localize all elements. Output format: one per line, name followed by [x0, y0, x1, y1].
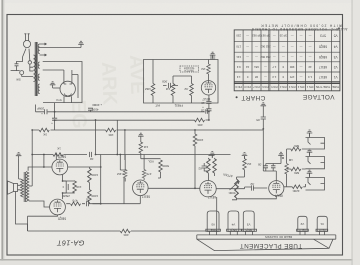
jack 2 ground — [307, 149, 313, 155]
B+ bus 2 — [55, 119, 209, 121]
output transformer secondary winding — [21, 179, 24, 197]
jack 1 ground — [307, 130, 313, 136]
svg-text:6X4: 6X4 — [210, 228, 215, 232]
ground G2 inside rectifier loop — [50, 82, 56, 88]
svg-text:PIN 8: PIN 8 — [244, 85, 251, 89]
rail cap C05 — [261, 117, 266, 119]
svg-text:V2: V2 — [334, 65, 338, 69]
treble network resistor B — [213, 159, 217, 173]
input grid resistor 1M vertical — [285, 164, 289, 174]
svg-text:.02: .02 — [198, 167, 203, 171]
grid resistor Rg1 — [88, 168, 92, 182]
AC line wire — [11, 70, 20, 72]
svg-text:V1: V1 — [320, 222, 324, 226]
svg-text:AVE: AVE — [125, 54, 148, 94]
svg-text:6EU7: 6EU7 — [275, 194, 283, 198]
svg-text:PIN 3: PIN 3 — [288, 85, 295, 89]
svg-text:—: — — [282, 55, 285, 59]
heater loop wire outer — [43, 62, 82, 103]
svg-text:PIN 2: PIN 2 — [297, 85, 304, 89]
svg-text:10: 10 — [201, 101, 205, 105]
secondary tap arrow A — [40, 43, 47, 45]
svg-text:1M: 1M — [247, 162, 252, 166]
svg-text:2.2M: 2.2M — [117, 172, 124, 176]
interstage wires — [216, 187, 267, 189]
svg-text:6EU7: 6EU7 — [319, 75, 327, 79]
svg-text:TUBE TYPE: TUBE TYPE — [316, 85, 331, 89]
svg-text:500K: 500K — [228, 191, 235, 195]
volume pot top lead — [232, 177, 237, 200]
cathode resistor Rk — [73, 181, 77, 193]
tremolo resistor R1 — [151, 84, 155, 96]
OT secondary ground G9 — [16, 153, 22, 159]
AC cord wires — [23, 49, 30, 61]
svg-text:1M: 1M — [201, 67, 206, 71]
treble network resistor A — [207, 159, 211, 173]
svg-text:6EU7: 6EU7 — [299, 228, 306, 232]
svg-text:—: — — [246, 55, 249, 59]
svg-text:VOLTAGE: VOLTAGE — [302, 93, 334, 100]
jack 1 ground stub — [309, 133, 311, 138]
treble network wires — [204, 155, 214, 180]
svg-text:6BQ5: 6BQ5 — [245, 228, 252, 232]
jack wires to grid — [287, 149, 306, 169]
output tube V4 inner — [56, 160, 64, 172]
grid bus with inline resistor — [284, 149, 287, 187]
B+ bus 1 — [36, 105, 209, 112]
voltage chart table grid — [234, 30, 340, 91]
tube placement outline V3 — [242, 211, 257, 235]
V1 top ground G8 — [278, 152, 284, 158]
bus3 resistor Ra — [39, 128, 49, 132]
tremolo cap Ca — [169, 83, 171, 88]
tremolo tube inner — [205, 81, 213, 93]
svg-text:V2: V2 — [300, 222, 304, 226]
chassis bar — [197, 235, 336, 251]
svg-text:.05: .05 — [256, 118, 261, 122]
svg-text:300: 300 — [289, 65, 294, 69]
input tube V1 inner — [272, 181, 280, 193]
grid bus vertical — [100, 155, 102, 204]
svg-text:V4: V4 — [334, 45, 338, 49]
svg-text:+ 20MF: + 20MF — [92, 103, 102, 107]
OT primary top lead to V4 plate — [28, 155, 52, 171]
svg-text:—: — — [299, 65, 302, 69]
Rc leads — [140, 139, 142, 158]
svg-text:.02: .02 — [201, 109, 206, 113]
svg-text:5K: 5K — [43, 133, 47, 137]
svg-text:47K: 47K — [146, 172, 151, 176]
svg-text:1M: 1M — [165, 87, 170, 91]
svg-text:1M: 1M — [288, 158, 293, 162]
filter cap C1 inline plates — [45, 109, 47, 114]
fuse circle — [20, 71, 34, 77]
filter cap label +20MF 450V — [91, 103, 102, 112]
svg-text:230: 230 — [236, 34, 241, 38]
line cap to chassis — [15, 57, 23, 71]
rail from bus3 down to coupling — [124, 130, 126, 160]
tremolo box outline — [144, 60, 219, 104]
svg-text:CHART: CHART — [241, 94, 265, 101]
svg-text:V3: V3 — [334, 55, 338, 59]
grid resistor 68K jack1 — [291, 147, 301, 151]
cathode bypass cap Cf — [66, 181, 68, 193]
input tube V1 circle — [269, 181, 284, 196]
svg-text:.02: .02 — [250, 182, 255, 186]
tremolo R1 leads — [152, 60, 154, 104]
svg-text:—: — — [291, 45, 294, 49]
jack 2 body — [306, 157, 325, 169]
tube placement outline V1 — [316, 216, 328, 235]
voltage chart cell values row V1 — [236, 75, 337, 79]
svg-text:V5: V5 — [334, 34, 338, 38]
svg-text:262 062: 262 062 — [260, 55, 271, 59]
switch SW circle — [28, 61, 33, 71]
voltage chart cell values row V5 — [236, 34, 338, 38]
OT center tap to B+ — [29, 185, 32, 187]
voltage chart header row (pin numbers) — [235, 85, 339, 89]
svg-text:V3: V3 — [247, 223, 251, 227]
jack3 grid stopper resistor — [292, 185, 302, 189]
rectifier tube V5 circle — [60, 81, 75, 96]
phase splitter plate resistor — [142, 170, 146, 178]
svg-text:20K: 20K — [197, 123, 202, 127]
V2a plate resistor — [193, 134, 197, 146]
svg-text:TUBE: TUBE — [332, 85, 339, 89]
svg-text:1M: 1M — [143, 145, 148, 149]
filter cap C2 plates — [52, 118, 57, 120]
svg-text:44: 44 — [246, 65, 250, 69]
svg-text:—: — — [299, 45, 302, 49]
voltage chart cell values row V3 — [236, 55, 338, 59]
svg-text:—: — — [264, 65, 267, 69]
pot resistor Rv — [159, 160, 163, 172]
screen feed resistor 1K zigzag — [53, 153, 63, 157]
coupling resistor Rc vertical — [139, 142, 143, 153]
svg-text:PIN 1: PIN 1 — [306, 85, 313, 89]
svg-text:EG: EG — [67, 99, 90, 129]
svg-text:6EU7: 6EU7 — [319, 65, 327, 69]
output transformer primary winding — [26, 172, 29, 202]
svg-text:130: 130 — [76, 185, 81, 189]
svg-text:1.7: 1.7 — [272, 65, 276, 69]
svg-text:V5: V5 — [211, 223, 215, 227]
svg-text:3P 062: 3P 062 — [252, 34, 261, 38]
tremolo R2 leads — [172, 76, 174, 103]
svg-text:6BQ5: 6BQ5 — [58, 155, 66, 159]
output tube V2b circle — [50, 199, 66, 215]
treble network cap — [202, 166, 207, 168]
svg-text:—: — — [299, 34, 302, 38]
svg-text:+: + — [51, 122, 53, 126]
rail from bus2 down mid — [116, 120, 118, 155]
svg-text:.02: .02 — [184, 87, 189, 91]
svg-text:—: — — [299, 55, 302, 59]
power transformer core — [35, 42, 38, 96]
svg-text:V4: V4 — [231, 223, 235, 227]
svg-text:3P 067: 3P 067 — [261, 34, 270, 38]
rails into phase splitter — [120, 155, 144, 182]
svg-text:3P 25: 3P 25 — [279, 34, 287, 38]
cathode resistor Rk leads — [63, 181, 75, 193]
second stage tube V2a circle — [200, 181, 216, 197]
tremolo output cap Cd — [206, 109, 211, 111]
jack 2 ground stub — [309, 152, 311, 156]
phase splitter grid resistors — [123, 170, 127, 178]
rectifier pins — [64, 96, 72, 102]
svg-text:5Y3: 5Y3 — [320, 34, 326, 38]
voltage chart cell values row V4 — [236, 45, 338, 49]
svg-text:FREQ.: FREQ. — [174, 104, 183, 108]
AC plug body — [23, 34, 30, 48]
svg-text:6BQ5: 6BQ5 — [319, 55, 327, 59]
svg-text:.05: .05 — [258, 163, 263, 167]
V1 cathode return wire — [237, 196, 277, 199]
paper right edge line — [352, 0, 353, 265]
jack 1 body — [306, 138, 325, 150]
filter vertical with cap C2 — [54, 103, 56, 130]
tube placement outline V4 — [227, 211, 242, 235]
tremolo R4 leads — [208, 60, 210, 81]
svg-text:WITH 20,000 OHM/VOLT METER: WITH 20,000 OHM/VOLT METER — [260, 23, 342, 27]
svg-text:6EU7: 6EU7 — [208, 195, 216, 199]
svg-text:—: — — [264, 75, 267, 79]
screen feed junction dot — [56, 154, 58, 156]
grid feed wire tube2 — [66, 203, 140, 205]
svg-text:SW: SW — [16, 78, 21, 82]
NFB resistor — [120, 229, 130, 233]
tone resistor ground G7 — [242, 153, 248, 159]
V2b plate wire right — [28, 215, 58, 231]
phase inverter tube inner — [136, 181, 144, 193]
volume pot resistor — [235, 179, 239, 198]
ground G4 above Rc — [138, 133, 144, 139]
svg-text:1.3: 1.3 — [236, 75, 240, 79]
svg-text:GA-16T: GA-16T — [57, 238, 85, 247]
svg-text:68K: 68K — [294, 171, 299, 175]
svg-text:20MF: 20MF — [37, 106, 44, 110]
grid resistor 68K jack2 — [291, 167, 301, 171]
svg-text:REAR OF CHASSIS: REAR OF CHASSIS — [265, 235, 292, 239]
svg-text:—: — — [246, 45, 249, 49]
svg-text:PIN 7: PIN 7 — [253, 85, 260, 89]
grid resistor Rg2 — [88, 190, 92, 203]
voltage chart cell values row V2 — [236, 65, 337, 69]
power transformer primary winding — [33, 55, 35, 82]
paper bottom edge shadow — [0, 259, 360, 261]
svg-text:TUBE PLACEMENT: TUBE PLACEMENT — [239, 242, 302, 249]
second stage tube inner — [204, 182, 212, 194]
svg-text:.005: .005 — [162, 80, 168, 84]
svg-text:6BQ5: 6BQ5 — [230, 228, 237, 232]
tone resistor 1M to ground — [243, 159, 247, 170]
svg-text:—: — — [308, 45, 311, 49]
svg-text:5Y3: 5Y3 — [56, 98, 62, 102]
volume pot wiper arrow — [230, 182, 240, 191]
svg-text:10M: 10M — [145, 87, 151, 91]
svg-text:470: 470 — [72, 199, 77, 203]
coupling cap Cg — [87, 201, 89, 206]
svg-text:PIN 9: PIN 9 — [235, 85, 242, 89]
tremolo R3 leads — [191, 76, 193, 103]
jack 3 ground stub — [309, 173, 311, 177]
tremolo resistor R3 — [190, 84, 194, 96]
V1 supply rail — [262, 109, 264, 171]
svg-text:131: 131 — [236, 55, 241, 59]
ground G1 — [78, 41, 84, 47]
transformer secondary winding loops — [38, 44, 40, 94]
output tube V2b inner — [54, 200, 62, 212]
tremolo wire R2 top — [163, 76, 192, 86]
rail from bus2 down — [95, 120, 97, 155]
speaker return wire — [16, 192, 28, 232]
svg-text:6EU7: 6EU7 — [142, 195, 150, 199]
rectifier tube plates — [64, 74, 72, 96]
tremolo output cap Cc — [206, 102, 211, 104]
speaker frame — [8, 181, 18, 194]
tremolo top cap Cb — [210, 57, 215, 59]
tremolo ground G3 — [210, 52, 216, 58]
tube placement outline V5 — [206, 211, 221, 235]
svg-text:INT.: INT. — [155, 104, 161, 108]
V1 plate caps pair — [264, 164, 276, 172]
svg-text:—: — — [308, 55, 311, 59]
svg-text:20K: 20K — [123, 233, 128, 237]
svg-text:V1: V1 — [334, 75, 338, 79]
output transformer core — [24, 172, 25, 202]
svg-text:—: — — [291, 55, 294, 59]
svg-text:PIN 5: PIN 5 — [271, 85, 278, 89]
decoupling cap Ce on screen feed — [90, 152, 92, 157]
svg-text:ARK: ARK — [97, 61, 121, 106]
svg-text:500K: 500K — [162, 164, 169, 168]
svg-text:—: — — [282, 45, 285, 49]
heater loop wire inner — [43, 70, 78, 98]
tone resistor leads — [237, 156, 245, 177]
svg-text:25MF: 25MF — [62, 194, 70, 198]
wire from G2 to tube — [53, 87, 61, 89]
svg-text:68K: 68K — [294, 144, 299, 148]
secondary tap wire to ground — [40, 47, 82, 49]
svg-text:262 062: 262 062 — [260, 45, 271, 49]
treble network ground G5 — [210, 152, 216, 158]
svg-text:TO FOOT: TO FOOT — [183, 66, 194, 69]
bus2 dropping resistor 20K — [195, 118, 205, 122]
pot resistor Rv leads — [158, 172, 161, 178]
svg-text:6EU7: 6EU7 — [318, 228, 325, 232]
svg-text:1.3: 1.3 — [308, 75, 312, 79]
svg-text:—: — — [273, 34, 276, 38]
svg-text:VOL: VOL — [148, 160, 154, 164]
svg-text:—: — — [299, 75, 302, 79]
jack 3 ground — [307, 170, 313, 176]
svg-text:10K: 10K — [108, 133, 113, 137]
svg-text:SWITCH: SWITCH — [184, 69, 194, 72]
output tube V4 circle — [52, 159, 68, 175]
svg-text:170: 170 — [289, 75, 294, 79]
NFB bus — [28, 197, 217, 231]
paper left edge shadow — [0, 0, 1, 265]
svg-text:ALL D.C. VOLTAGES MEASURED TO: ALL D.C. VOLTAGES MEASURED TO CHASSIS — [251, 27, 347, 31]
svg-text:6BQ5: 6BQ5 — [319, 45, 327, 49]
OT primary bottom lead to V2b plate — [29, 201, 50, 207]
svg-text:—: — — [255, 45, 258, 49]
B+ screen feed wire — [32, 130, 230, 186]
svg-text:100K: 100K — [91, 173, 98, 177]
tremolo grid resistor R4 — [207, 64, 211, 74]
svg-text:.02: .02 — [90, 157, 95, 161]
speaker leads — [18, 185, 21, 190]
svg-text:100K: 100K — [91, 194, 98, 198]
svg-text:6BQ5: 6BQ5 — [58, 217, 66, 221]
grid stopper resistor — [71, 202, 81, 206]
svg-text:PIN 4: PIN 4 — [280, 85, 287, 89]
svg-text:PIN 6: PIN 6 — [262, 85, 269, 89]
svg-text:—: — — [291, 34, 294, 38]
bus3 resistor Rb — [106, 128, 116, 132]
svg-text:1.3: 1.3 — [272, 75, 276, 79]
secondary tap arrow B — [40, 54, 47, 56]
svg-text:170: 170 — [236, 45, 241, 49]
volume wire — [141, 158, 161, 160]
jack 3 body — [306, 178, 325, 191]
cathode junction wire — [63, 175, 75, 199]
svg-text:—: — — [255, 55, 258, 59]
title bullet — [236, 96, 238, 98]
coupling cap V2a-V1 — [251, 185, 253, 190]
tremolo resistor R2 — [171, 84, 175, 96]
phase inverter tube V3b circle — [133, 180, 149, 196]
svg-text:—: — — [273, 55, 276, 59]
svg-text:—: — — [308, 34, 311, 38]
V4 grid wire — [68, 167, 101, 204]
rail ground G6 — [261, 103, 267, 109]
tube placement outline V2 — [297, 216, 309, 235]
tremolo dashed label box — [180, 66, 199, 72]
svg-text:100K: 100K — [196, 138, 203, 142]
tremolo Cb lead — [212, 58, 214, 61]
svg-text:98: 98 — [255, 75, 259, 79]
tremolo output wires — [208, 95, 210, 120]
filter cap symbol on bus1 — [88, 108, 93, 111]
svg-text:1K: 1K — [57, 147, 61, 151]
jack3 stopper wires — [287, 184, 306, 187]
OT secondary ground wire — [19, 159, 21, 179]
rail x195 from bus3 down — [148, 130, 200, 188]
svg-text:+: + — [41, 112, 43, 116]
B+ bus 3 — [32, 129, 263, 131]
V1 top loop wires — [263, 159, 281, 181]
svg-text:981: 981 — [254, 65, 259, 69]
svg-text:.02: .02 — [86, 198, 91, 202]
tremolo tube V3 circle — [201, 81, 215, 95]
screen stub to tube1 — [55, 155, 57, 160]
bus1 end cap plus — [206, 109, 208, 114]
svg-text:43: 43 — [308, 65, 312, 69]
svg-text:6.3: 6.3 — [236, 65, 240, 69]
V1 top ground stub — [280, 155, 282, 158]
faint watermark letters — [67, 54, 148, 129]
svg-text:—: — — [246, 34, 249, 38]
note bullet dot — [338, 27, 340, 29]
svg-text:—: — — [273, 45, 276, 49]
phase inverter cathode diagonal — [124, 178, 140, 204]
svg-text:220K: 220K — [292, 189, 299, 193]
